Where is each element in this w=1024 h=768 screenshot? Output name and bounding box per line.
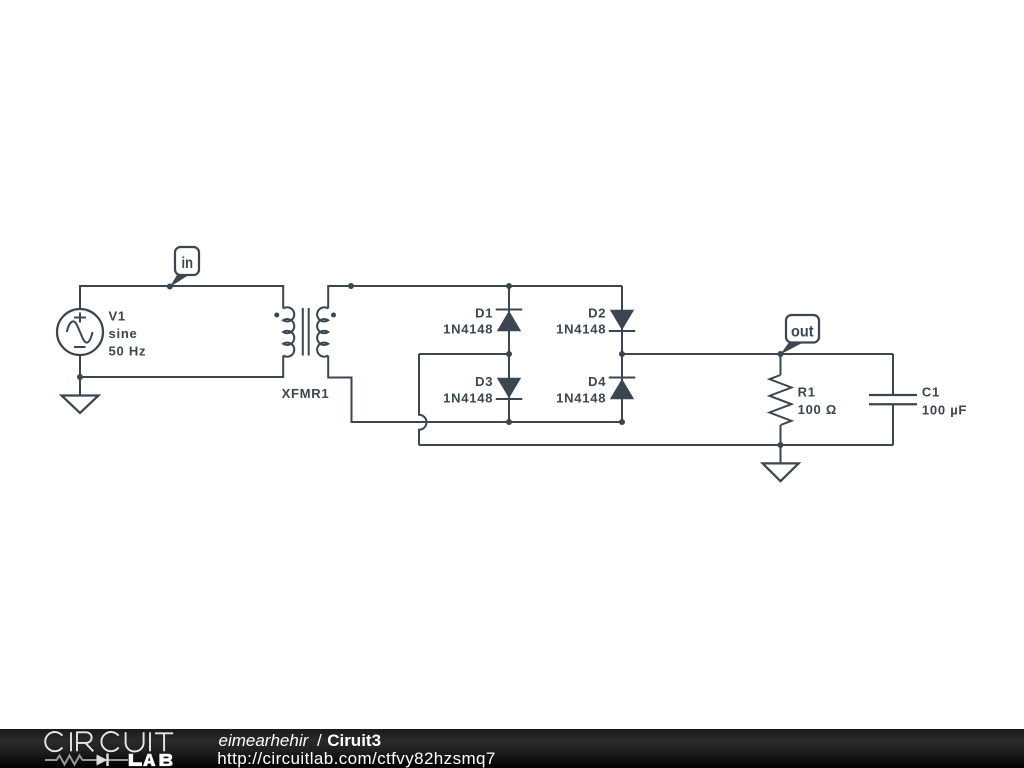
resistor R1 — [770, 354, 838, 445]
diode D3 — [443, 374, 522, 405]
node D1 top — [506, 283, 512, 289]
svg-text:1N4148: 1N4148 — [556, 322, 606, 337]
svg-text:R1: R1 — [798, 385, 816, 400]
svg-text:eimearhehir: eimearhehir — [219, 731, 310, 750]
node in dot — [167, 284, 173, 290]
diode D1 — [443, 305, 522, 336]
logo LAB — [129, 754, 173, 766]
svg-text:in: in — [182, 255, 194, 272]
node D2-D4 mid — [619, 351, 625, 357]
diode D4 — [556, 374, 635, 405]
svg-text:/: / — [317, 731, 322, 750]
wire mid right to C1 — [622, 353, 893, 355]
wire vertical with hop — [419, 354, 427, 445]
svg-text:D2: D2 — [588, 305, 606, 320]
capacitor C1 — [869, 354, 967, 445]
ground (V1) — [62, 377, 99, 413]
svg-text:D4: D4 — [588, 374, 606, 389]
svg-text:Ciruit3: Ciruit3 — [327, 731, 381, 750]
wire D1 D3 column — [508, 286, 510, 422]
svg-text:1N4148: 1N4148 — [443, 390, 493, 405]
svg-text:100 Ω: 100 Ω — [798, 402, 837, 417]
voltage source V1 — [57, 308, 146, 358]
ground (R1) — [763, 445, 799, 481]
node R1 bottom — [778, 442, 784, 448]
svg-text:XFMR1: XFMR1 — [282, 386, 330, 401]
node D4 bottom — [619, 419, 625, 425]
svg-text:100 µF: 100 µF — [922, 402, 967, 417]
svg-text:http://circuitlab.com/ctfvy82h: http://circuitlab.com/ctfvy82hzsmq7 — [217, 749, 496, 768]
wire secondary top — [328, 286, 622, 309]
node D1-D3 mid — [506, 351, 512, 357]
svg-text:1N4148: 1N4148 — [556, 390, 606, 405]
node V1 ground — [77, 374, 83, 380]
logo waveform diode — [45, 754, 128, 767]
wire bottom long — [419, 444, 893, 446]
wire bottom primary — [80, 355, 283, 377]
node D3 bottom — [506, 419, 512, 425]
svg-text:sine: sine — [109, 326, 138, 341]
svg-text:D3: D3 — [475, 374, 493, 389]
diode D2 — [556, 305, 635, 336]
flag out — [780, 315, 819, 355]
wire top primary — [80, 286, 283, 309]
svg-text:C1: C1 — [922, 385, 940, 400]
footer title — [219, 731, 382, 750]
footer bar — [0, 729, 1024, 768]
svg-text:D1: D1 — [475, 305, 493, 320]
wire D2 D4 column — [621, 286, 623, 422]
svg-text:out: out — [791, 323, 814, 340]
transformer XFMR1 — [274, 307, 336, 401]
node secondary top — [348, 283, 354, 289]
svg-text:V1: V1 — [109, 308, 126, 323]
wire secondary bottom — [328, 356, 622, 423]
logo CIRCUIT — [45, 732, 173, 752]
flag in — [170, 247, 199, 287]
svg-text:50 Hz: 50 Hz — [109, 344, 147, 359]
node out dot — [778, 351, 784, 357]
wire mid left — [419, 353, 509, 355]
svg-text:1N4148: 1N4148 — [443, 322, 493, 337]
